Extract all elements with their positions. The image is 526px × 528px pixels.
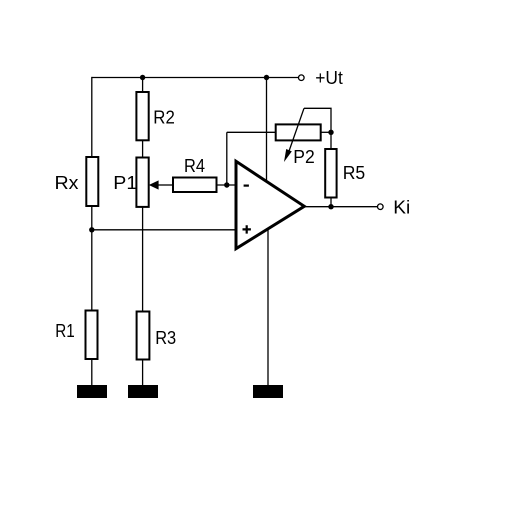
wire op-amp positive supply (266, 78, 268, 182)
P1 wiper arrow (149, 180, 159, 189)
potentiometer P1 body (136, 158, 148, 207)
wire R1 top lead (91, 230, 93, 311)
svg-text:R2: R2 (153, 107, 175, 127)
wire P1 bottom lead (142, 207, 144, 312)
resistor R5 (325, 149, 336, 198)
resistor R4 (173, 178, 217, 193)
node Rx/R1 junction (89, 227, 94, 232)
wire R2 to P1 (142, 140, 144, 157)
wire P2 right lead (321, 131, 331, 133)
resistor R2 (136, 92, 148, 140)
svg-text:Ki: Ki (393, 197, 410, 217)
node output junction (328, 204, 333, 209)
ground R3 (128, 385, 158, 398)
svg-text:R3: R3 (155, 328, 176, 348)
svg-text:R1: R1 (55, 321, 75, 341)
svg-text:+Ut: +Ut (315, 68, 343, 88)
P2 wiper arrowhead (284, 149, 292, 162)
terminal +Ut (299, 75, 305, 81)
wire R5 top lead (330, 132, 332, 149)
wire op-amp negative supply (267, 230, 269, 387)
node +Ut supply junction (264, 75, 269, 80)
resistor R1 (86, 311, 98, 360)
wire R4 to inverting node (217, 184, 237, 186)
node P2/R5 junction (328, 130, 333, 135)
wire R2 top lead (142, 78, 144, 93)
potentiometer P2 body (276, 124, 321, 140)
node R2 top junction (140, 75, 145, 80)
wire wiper to R4 (157, 184, 173, 186)
svg-text:P1: P1 (113, 173, 137, 193)
terminal Ki (378, 204, 384, 210)
wire top rail (92, 77, 299, 79)
wire feedback horizontal (227, 131, 276, 133)
svg-text:P2: P2 (293, 147, 315, 167)
wire output (304, 206, 377, 208)
wire R5 bottom lead (330, 198, 332, 207)
P2 wiper diagonal (288, 108, 304, 154)
svg-text:R5: R5 (343, 163, 366, 183)
op-amp minus sign (244, 185, 249, 187)
wire Rx top lead (91, 77, 93, 157)
wire R1 bottom lead (91, 359, 93, 386)
ground R1 (77, 385, 107, 398)
wire noninverting input (92, 229, 236, 231)
wire R3 bottom lead (142, 360, 144, 387)
ground op-amp (253, 385, 283, 398)
resistor R3 (137, 312, 150, 360)
node inverting input junction (224, 182, 229, 187)
svg-text:R4: R4 (184, 156, 205, 176)
wire Rx bottom to node (91, 206, 93, 230)
wire feedback vertical (226, 132, 228, 185)
wire P2 wiper top bend (304, 108, 331, 132)
resistor Rx (86, 157, 98, 206)
op-amp U1 (236, 161, 304, 248)
svg-text:Rx: Rx (55, 173, 79, 193)
op-amp plus sign (243, 225, 251, 233)
